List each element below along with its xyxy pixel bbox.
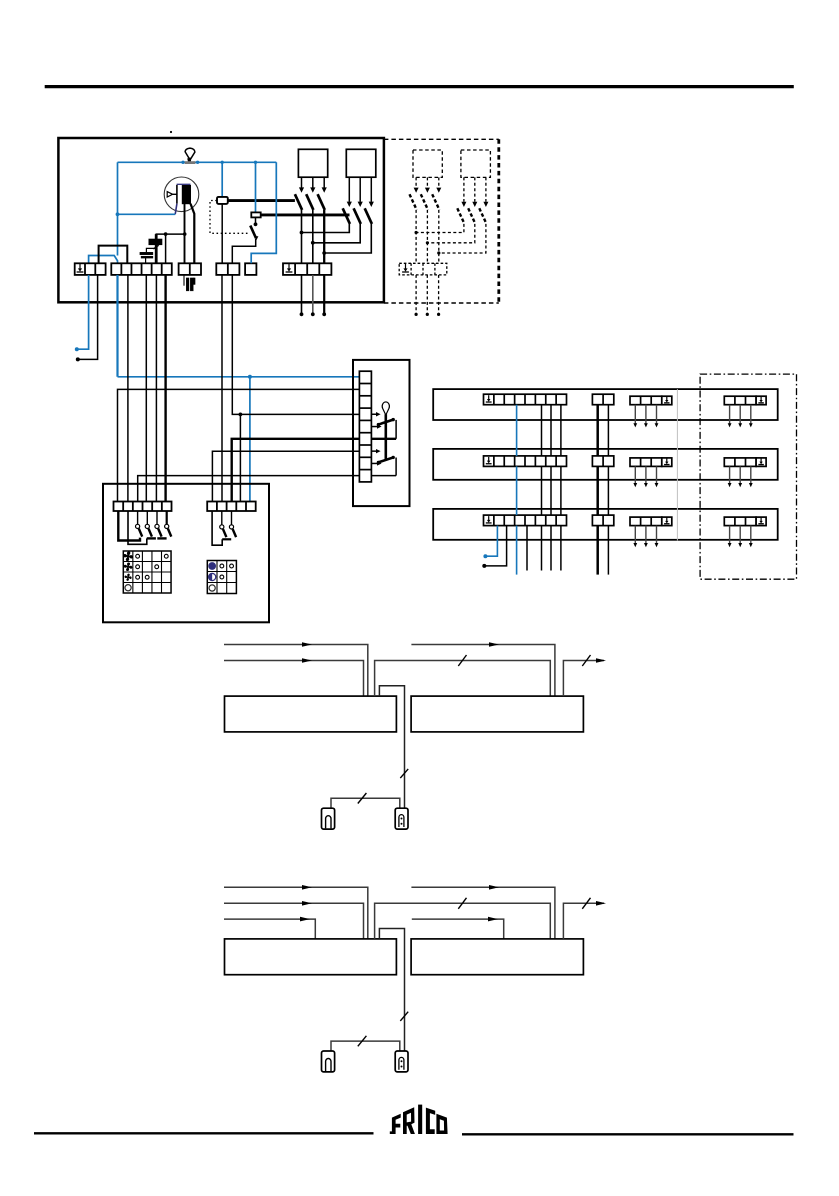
row interconnect bus bbox=[542, 405, 561, 571]
row 1 optional element block (dash-dot) bbox=[724, 396, 756, 405]
wire to thermostat 4 bbox=[232, 275, 359, 502]
stage 1 contacts bbox=[371, 412, 396, 439]
link wire to unit 2 bbox=[375, 898, 551, 939]
supply wire L2 bbox=[224, 901, 364, 939]
sensor branch bbox=[379, 686, 408, 809]
row 2 element leads bbox=[633, 466, 658, 487]
terminal strip X2 bbox=[111, 263, 171, 275]
duct run A (two-wire) bbox=[0, 0, 1, 1]
wire to next unit bbox=[563, 655, 606, 696]
connector link bbox=[331, 1036, 400, 1051]
relay K1 coil bbox=[217, 162, 228, 263]
terminal strip X1 bbox=[75, 263, 106, 275]
link wire node bbox=[156, 232, 187, 263]
panel strip fan bbox=[114, 502, 172, 512]
blue wire to motor bbox=[116, 162, 176, 255]
thermostat terminal stack bbox=[359, 371, 371, 482]
heater row 2 enclosure bbox=[433, 449, 778, 480]
connector link bbox=[331, 793, 400, 808]
thermostat sensing bulb bbox=[382, 402, 389, 414]
heat selector switch bbox=[212, 511, 236, 545]
row 2 main terminal strip bbox=[484, 456, 567, 467]
row 2 link block bbox=[592, 456, 613, 467]
thermostat lever bbox=[384, 414, 387, 460]
motor leads bbox=[175, 204, 194, 264]
dashed contactor B box bbox=[461, 150, 491, 177]
K2 actuation line bbox=[261, 213, 350, 216]
blue tail A bbox=[75, 275, 89, 351]
dashed terminal strip bbox=[399, 263, 447, 275]
fan speed table bbox=[123, 551, 171, 593]
dashed supply stubs bbox=[415, 275, 441, 316]
contactor K1 poles bbox=[295, 177, 327, 263]
wire to next unit bbox=[563, 898, 606, 939]
stage 2 contacts bbox=[371, 449, 396, 476]
row 3 main terminal strip bbox=[484, 515, 567, 526]
sensor bulb symbol bbox=[185, 148, 196, 164]
link wire to unit 2 bbox=[375, 655, 551, 696]
row 3 element block bbox=[630, 517, 662, 526]
blue control bus bbox=[118, 161, 277, 164]
bridge link bbox=[99, 246, 128, 264]
wire run cell6 thick bbox=[164, 275, 166, 502]
row 1 element block bbox=[630, 396, 662, 405]
terminal strip X3 bbox=[179, 263, 201, 275]
wire to thermostat 2 bbox=[118, 389, 360, 501]
top rule bbox=[45, 85, 794, 88]
thick wire thermostat 6 bbox=[232, 439, 360, 502]
dashed contactor A box bbox=[413, 150, 442, 177]
heater unit 2 bbox=[411, 696, 583, 732]
supply wire unit 2 bbox=[411, 642, 555, 696]
heater unit 1 bbox=[225, 939, 397, 975]
row 3 optional element block (dash-dot) bbox=[724, 517, 756, 526]
heater unit 2 bbox=[411, 939, 583, 975]
thermostat enclosure bbox=[353, 360, 410, 506]
wire run X4c1 bbox=[221, 275, 223, 502]
row3 hanging wires bbox=[526, 526, 528, 571]
heater row 3 enclosure bbox=[433, 509, 778, 540]
fold artifact bbox=[676, 389, 678, 540]
terminal strip X4 bbox=[216, 263, 239, 275]
wire thermostat 9 bbox=[138, 476, 360, 502]
optional heaters region (dash-dot) bbox=[700, 374, 796, 579]
row 1 element leads bbox=[633, 405, 658, 428]
speck bbox=[170, 131, 172, 133]
footer rule left bbox=[34, 1132, 374, 1134]
row 2 element block bbox=[630, 458, 662, 467]
row 3 optional element leads bbox=[728, 526, 753, 548]
row3 black tail bbox=[482, 526, 506, 568]
row 1 main terminal strip bbox=[484, 394, 567, 405]
terminal strip X5 bbox=[245, 263, 256, 275]
motor plug pins bbox=[184, 276, 195, 291]
relay K2 coil bbox=[251, 162, 260, 217]
contactor K2 poles bbox=[300, 177, 374, 255]
supply stubs bbox=[300, 275, 327, 316]
control panel enclosure bbox=[103, 484, 269, 623]
heater row 1 enclosure bbox=[433, 389, 778, 420]
row 3 element leads bbox=[633, 526, 658, 548]
connector female bbox=[322, 808, 335, 829]
supply wire L1 bbox=[224, 885, 368, 939]
blue branch to terminals bbox=[89, 256, 118, 264]
wire run cell4 bbox=[145, 275, 147, 502]
footer rule right bbox=[462, 1133, 794, 1135]
row 3 link block bbox=[592, 515, 613, 526]
black tail B bbox=[76, 275, 98, 362]
blue run to thermostat bbox=[118, 275, 360, 502]
heat table bbox=[207, 561, 236, 594]
thermal switch bbox=[232, 217, 258, 263]
optional unit (dashed enclosure) bbox=[384, 139, 499, 303]
heater unit 1 bbox=[225, 696, 397, 732]
motor M1 bbox=[164, 177, 199, 212]
supply wire L1 bbox=[224, 642, 368, 696]
dashed contactor B poles bbox=[415, 177, 489, 254]
connector female bbox=[322, 1051, 335, 1072]
thermal linkage (dotted) bbox=[210, 201, 250, 234]
wire thermostat 7 bbox=[212, 451, 359, 501]
blue wire to X5 bbox=[251, 162, 276, 263]
row 1 optional element leads bbox=[728, 405, 753, 428]
contactor K2 main contacts box bbox=[346, 149, 376, 177]
row3 blue tail bbox=[483, 526, 497, 559]
supply wire L2 bbox=[224, 658, 364, 696]
wire run cell2 bbox=[127, 275, 129, 502]
panel strip heat bbox=[207, 502, 256, 512]
row 2 optional element block (dash-dot) bbox=[724, 458, 756, 467]
sensor branch bbox=[379, 929, 408, 1052]
supply wire L3 bbox=[224, 917, 315, 939]
wire run cell5 bbox=[155, 275, 157, 502]
supply wire unit 2 bbox=[411, 885, 555, 939]
row link wires bbox=[598, 405, 609, 575]
control unit enclosure bbox=[58, 138, 384, 302]
row interconnect blue bbox=[516, 405, 518, 575]
connector male bbox=[395, 1051, 408, 1072]
connector male bbox=[395, 808, 408, 829]
supply wire unit 2 L3 bbox=[412, 917, 504, 939]
duct run B (three-wire) bbox=[0, 0, 1, 1]
row 2 optional element leads bbox=[728, 466, 753, 487]
dashed contactor A poles bbox=[410, 177, 442, 263]
fan selector switch bbox=[118, 511, 171, 544]
contactor K1 main contacts box bbox=[298, 149, 327, 177]
K1 actuation line bbox=[228, 199, 295, 202]
FRICO logo bbox=[390, 1105, 448, 1134]
row 1 link block bbox=[592, 394, 613, 405]
capacitor C1 bbox=[140, 234, 162, 263]
terminal strip X6 bbox=[283, 263, 331, 275]
